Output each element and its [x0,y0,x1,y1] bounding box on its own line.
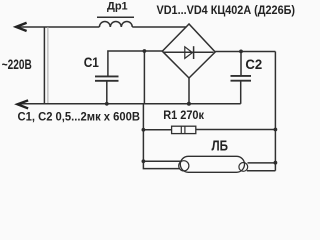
svg-text:Др1: Др1 [107,0,128,12]
svg-text:C1, C2 0,5...2мк х 600В: C1, C2 0,5...2мк х 600В [18,110,141,124]
svg-text:ЛБ: ЛБ [212,138,229,154]
svg-text:~220В: ~220В [2,57,32,72]
svg-text:VD1...VD4 КЦ402А (Д226Б): VD1...VD4 КЦ402А (Д226Б) [157,4,296,17]
svg-text:C2: C2 [245,57,262,72]
svg-text:C1: C1 [84,55,99,70]
svg-text:R1 270к: R1 270к [163,108,205,122]
